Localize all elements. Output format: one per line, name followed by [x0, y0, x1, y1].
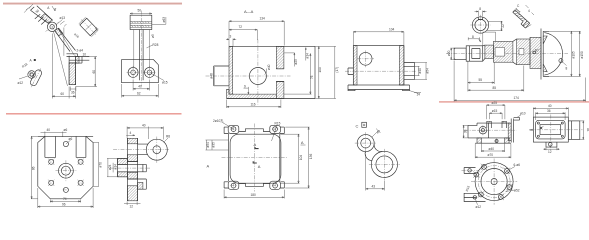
section 5 hatched with window	[517, 39, 530, 65]
svg-text:ø70: ø70	[99, 162, 103, 168]
svg-text:ø12: ø12	[476, 205, 482, 209]
dims below	[481, 144, 504, 152]
svg-text:100: 100	[318, 67, 322, 73]
svg-text:76: 76	[310, 75, 314, 79]
pink mid-right rule	[439, 101, 589, 102]
projection lines	[468, 32, 495, 46]
left dims	[206, 140, 229, 150]
right dims	[281, 134, 300, 183]
dim 50	[130, 13, 152, 14]
svg-text:A: A	[207, 164, 210, 169]
detached pad part	[78, 16, 99, 38]
svg-text:(17): (17)	[335, 67, 339, 73]
view: plate side section	[107, 124, 170, 209]
dim 43	[366, 155, 385, 191]
svg-text:R28: R28	[153, 43, 159, 47]
svg-text:R8: R8	[166, 135, 170, 139]
svg-text:ø14: ø14	[113, 164, 117, 170]
centerlines	[222, 124, 288, 192]
arm dim ticks	[24, 4, 33, 13]
corner bolt circles	[231, 127, 236, 132]
top dims	[127, 127, 163, 140]
lower-right arm	[55, 28, 76, 51]
flange hub	[530, 37, 541, 68]
svg-text:ø40: ø40	[418, 68, 422, 74]
svg-text:ø54: ø54	[206, 142, 210, 148]
view: A-A section (top middle)	[206, 9, 340, 108]
right inner wall hatched (two segments with port)	[276, 46, 284, 68]
svg-text:134: 134	[260, 17, 266, 21]
view: cover plate (bottom far right)	[529, 104, 589, 154]
upper-left arm	[31, 6, 53, 23]
right hole	[145, 67, 155, 77]
svg-text:C: C	[356, 123, 359, 128]
body outline	[353, 46, 404, 85]
hub centerlines	[46, 21, 59, 34]
svg-text:40: 40	[47, 128, 51, 132]
top dims	[533, 107, 568, 117]
svg-text:4: 4	[130, 131, 132, 135]
bolt circle dashed	[478, 166, 510, 198]
bore lines	[118, 164, 147, 171]
corner dots	[537, 122, 539, 124]
svg-text:10: 10	[83, 53, 87, 57]
stub	[454, 48, 466, 60]
left head circle	[479, 126, 487, 134]
right dim 16	[580, 121, 585, 139]
base small hole	[495, 140, 498, 143]
dim 116 bottom	[227, 100, 281, 109]
svg-text:ø150: ø150	[580, 51, 584, 58]
left wall hatch	[353, 46, 357, 85]
base plate	[348, 85, 410, 91]
bottom-right step	[138, 182, 143, 189]
leader R	[272, 126, 278, 142]
svg-text:60°: 60°	[535, 49, 541, 53]
svg-text:86: 86	[31, 166, 35, 170]
dim 9	[244, 87, 249, 94]
svg-text:40: 40	[548, 104, 552, 108]
body	[468, 123, 510, 138]
small lobe	[357, 135, 374, 152]
four holes	[49, 159, 54, 164]
right outer wall	[314, 46, 316, 98]
dims phi105 phi150	[543, 31, 581, 76]
ref vertical	[63, 28, 65, 56]
bottom hole	[63, 187, 68, 192]
pink top rule	[3, 3, 182, 5]
hub circle	[47, 22, 56, 31]
svg-text:9: 9	[244, 84, 246, 88]
top leader	[223, 123, 234, 130]
dim 22 right of circle	[487, 21, 503, 30]
svg-text:A: A	[254, 142, 257, 147]
inner rounded square	[230, 134, 281, 183]
centerlines	[206, 40, 291, 105]
view: bracket section (top, 2nd from right)	[345, 27, 429, 96]
svg-text:ø105: ø105	[572, 51, 576, 58]
svg-text:8: 8	[479, 7, 481, 11]
hub neck to circle	[138, 144, 148, 155]
long taper lines to foot	[54, 30, 75, 87]
svg-text:6-ø6: 6-ø6	[514, 163, 521, 167]
svg-text:ø15: ø15	[162, 81, 168, 85]
dim 100	[318, 46, 319, 98]
svg-text:ø63: ø63	[162, 17, 166, 23]
base block	[122, 60, 159, 83]
left dim	[31, 136, 38, 198]
foot block hatched	[69, 63, 76, 85]
svg-text:ø15: ø15	[492, 109, 498, 113]
left top tab	[464, 168, 476, 174]
left bottom tab	[464, 193, 485, 201]
view: angled lever (top-left)	[18, 4, 100, 99]
dims phi40 phi54	[414, 63, 427, 80]
innermost rect	[540, 125, 561, 135]
svg-text:85: 85	[493, 86, 497, 90]
big lobe	[371, 151, 397, 177]
svg-text:12: 12	[548, 150, 552, 154]
bottom dim 180	[224, 190, 284, 199]
bottom wall hatched with left lip	[227, 89, 277, 98]
right nub	[514, 117, 520, 120]
circle	[359, 52, 372, 65]
svg-text:ø13: ø13	[60, 16, 66, 20]
svg-text:104: 104	[389, 27, 395, 31]
top dims	[41, 132, 67, 138]
bottom dim	[124, 202, 141, 206]
top dims	[487, 104, 505, 119]
view: shaft (top right)	[446, 4, 586, 102]
angle detail view	[511, 8, 533, 29]
foot top bracket	[67, 54, 90, 85]
left boss	[118, 158, 128, 164]
left wall hatched	[229, 46, 233, 94]
svg-text:ø70: ø70	[488, 153, 494, 157]
right dim	[93, 143, 99, 187]
label phi40 leader	[265, 69, 267, 75]
view: pump body (bottom right)	[463, 101, 526, 158]
leader phi13	[57, 20, 63, 25]
right wall hatch	[399, 46, 404, 85]
view: pump circular view	[462, 159, 521, 209]
svg-text:40: 40	[138, 84, 142, 88]
leader	[372, 129, 381, 138]
bottom dim 60	[52, 34, 75, 99]
svg-text:12: 12	[130, 205, 134, 209]
right boss	[404, 63, 415, 80]
right dim 60	[76, 57, 97, 87]
svg-text:8: 8	[566, 67, 568, 71]
svg-text:55: 55	[479, 78, 483, 82]
svg-text:60: 60	[61, 92, 65, 96]
dim phi20	[450, 48, 454, 60]
svg-text:ø48: ø48	[210, 73, 214, 79]
left boss	[214, 66, 229, 86]
svg-text:ø20: ø20	[447, 50, 451, 56]
svg-text:104: 104	[299, 155, 303, 161]
top center hole	[63, 141, 68, 146]
svg-text:174: 174	[514, 96, 520, 100]
centerlines	[529, 115, 582, 151]
svg-text:ø25: ø25	[492, 101, 498, 105]
svg-text:ø40: ø40	[267, 64, 271, 70]
legs	[477, 138, 481, 143]
left dims	[107, 158, 118, 176]
svg-text:ø54: ø54	[425, 68, 429, 74]
svg-text:2ø10孔: 2ø10孔	[213, 118, 224, 123]
horizontal centerline	[345, 70, 416, 72]
dim 8	[475, 11, 487, 16]
section 2 with keyway	[466, 46, 483, 61]
left hole	[128, 67, 138, 77]
svg-text:ø12: ø12	[18, 81, 24, 85]
dim phi25 phi14	[284, 48, 306, 67]
svg-text:14: 14	[417, 93, 421, 97]
left dim	[463, 125, 468, 137]
bottom tab	[546, 142, 557, 147]
svg-text:36: 36	[547, 109, 551, 113]
small hole label	[540, 127, 542, 129]
mid centerline	[465, 129, 517, 131]
end circle view	[472, 17, 488, 33]
svg-text:136: 136	[309, 154, 313, 160]
shaft centerline	[446, 53, 568, 55]
svg-text:ø14: ø14	[306, 53, 310, 59]
right wall hatch	[508, 123, 511, 141]
far dim	[334, 46, 336, 98]
top block	[130, 15, 152, 29]
view: plate front (bottom left)	[31, 128, 103, 208]
bolt holes	[482, 165, 487, 170]
svg-text:ø52: ø52	[514, 189, 520, 193]
svg-text:40: 40	[142, 124, 146, 128]
svg-text:2-ø4: 2-ø4	[77, 49, 84, 53]
bottom edge extension	[227, 98, 315, 100]
outline: top edge	[229, 45, 315, 47]
top pads hatched	[487, 121, 492, 123]
section 3	[485, 45, 494, 58]
outer rect	[533, 117, 568, 142]
leader phi15	[150, 72, 165, 80]
svg-text:43: 43	[372, 184, 376, 188]
svg-text:A: A	[258, 164, 261, 169]
leader R28	[147, 45, 153, 48]
svg-text:ø25: ø25	[294, 59, 298, 65]
dim 104	[353, 31, 404, 45]
svg-text:A: A	[301, 140, 304, 145]
outline with corner pads	[228, 125, 239, 133]
svg-text:8: 8	[472, 35, 474, 39]
stem lines	[140, 30, 144, 81]
svg-text:60: 60	[92, 70, 96, 74]
svg-text:72: 72	[239, 25, 243, 29]
view: spring screw (second, top-left)	[122, 9, 168, 98]
dim 134	[229, 21, 284, 46]
svg-text:ø6: ø6	[69, 137, 73, 141]
right small dim	[152, 17, 166, 24]
pink mid-left rule	[6, 113, 182, 114]
svg-text:116: 116	[251, 102, 256, 106]
svg-text:36: 36	[71, 91, 75, 95]
outline with chamfered corners	[38, 136, 93, 198]
tangent blends	[365, 144, 382, 161]
svg-text:50: 50	[138, 9, 142, 13]
inner rounded rect	[536, 120, 566, 139]
dim 76	[284, 54, 312, 95]
svg-text:180: 180	[251, 193, 257, 197]
bottom dims	[468, 62, 494, 92]
svg-text:R15: R15	[275, 122, 281, 126]
hub circles	[59, 163, 74, 178]
big circle	[146, 139, 167, 160]
left nub	[348, 68, 353, 75]
dim 72	[229, 29, 257, 40]
svg-text:38: 38	[463, 129, 467, 133]
svg-text:74: 74	[63, 197, 67, 201]
svg-text:ø40: ø40	[489, 147, 495, 151]
svg-text:22: 22	[501, 24, 505, 28]
bore circle	[249, 68, 266, 85]
svg-text:ø35: ø35	[211, 142, 215, 148]
bottom dims	[50, 200, 80, 203]
svg-text:62: 62	[137, 91, 141, 95]
flange bar	[127, 138, 137, 144]
svg-text:3: 3	[230, 35, 232, 39]
view: square flange (bottom middle)	[206, 118, 313, 198]
bell flange	[541, 29, 549, 80]
side view	[568, 121, 580, 139]
svg-text:96: 96	[62, 202, 66, 206]
svg-text:ø5: ø5	[151, 34, 155, 38]
dim 3 wall	[226, 21, 236, 46]
bottom dim	[410, 91, 422, 94]
svg-text:4: 4	[528, 9, 530, 13]
svg-text:A—A: A—A	[244, 9, 254, 14]
leaders	[507, 167, 515, 171]
top slots	[45, 136, 86, 157]
section 4 hatched with window	[493, 41, 513, 62]
view: C direction (two lobes)	[355, 122, 400, 190]
bottom dims 40 62	[133, 80, 149, 91]
svg-text:ø24: ø24	[108, 164, 112, 170]
svg-text:ø6: ø6	[64, 128, 68, 132]
svg-text:ø10: ø10	[520, 112, 526, 116]
